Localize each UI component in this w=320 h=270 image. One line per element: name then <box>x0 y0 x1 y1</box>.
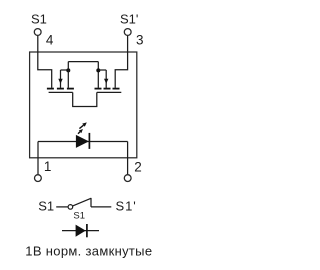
svg-text:S1': S1' <box>120 11 138 26</box>
svg-text:1: 1 <box>44 159 52 174</box>
switch S1 pivot circle <box>68 205 73 210</box>
junction dot Q2 source <box>96 68 100 72</box>
transistor Q2 gate line <box>97 91 122 93</box>
terminal S1 circle <box>34 29 41 36</box>
wire diode left lead <box>62 230 99 232</box>
wire switch left lead <box>56 206 68 208</box>
junction dot Q1 source <box>66 68 70 72</box>
wire Q1 body to source junction <box>61 69 69 71</box>
svg-text:1В норм. замкнутые: 1В норм. замкнутые <box>25 243 152 258</box>
transistor Q1 gate line <box>49 91 73 93</box>
transistor Q1 drain bar <box>47 88 54 90</box>
transistor Q1 source bar <box>67 88 74 90</box>
transistor Q2 body arrow <box>104 70 108 88</box>
switch S1 contact <box>90 198 92 207</box>
svg-text:S1: S1 <box>38 199 54 214</box>
terminal S1' circle <box>124 29 131 36</box>
svg-text:2: 2 <box>134 159 142 174</box>
wire source-source top rail <box>68 61 98 63</box>
transistor Q1 body bar <box>57 88 64 90</box>
wire Q2 source stub <box>97 62 99 88</box>
wire LED anode row <box>38 141 128 143</box>
svg-text:S1: S1 <box>73 211 85 222</box>
wire Q2 drain to pin3 <box>115 36 127 88</box>
svg-text:S1: S1 <box>31 11 47 26</box>
wire Q2 body to source junction <box>98 69 106 71</box>
led D1 emission arrow upper <box>79 122 86 128</box>
wire Q1 source stub <box>67 62 69 88</box>
svg-text:4: 4 <box>46 32 54 47</box>
transistor Q2 drain bar <box>113 88 120 90</box>
wire gate-gate link <box>73 92 97 106</box>
transistor Q1 body arrow <box>58 70 62 88</box>
package outline box <box>30 52 137 158</box>
svg-text:S1': S1' <box>116 199 137 214</box>
led D1 triangle <box>76 135 89 148</box>
wire pin4 to Q1 drain <box>38 36 52 88</box>
wire LED to pin2 <box>127 142 129 175</box>
transistor Q2 body bar <box>104 88 111 90</box>
wire switch right lead <box>91 206 111 208</box>
switch S1 blade <box>73 198 91 206</box>
transistor Q2 source bar <box>95 88 102 90</box>
diode D2 triangle <box>76 225 86 237</box>
terminal pin1 circle <box>35 175 42 182</box>
wire LED to pin1 <box>37 142 39 175</box>
diode D2 cathode bar <box>86 224 88 237</box>
svg-text:3: 3 <box>136 32 144 47</box>
terminal pin2 circle <box>124 175 131 182</box>
led D1 emission arrow lower <box>78 129 83 134</box>
led D1 cathode bar <box>88 133 90 149</box>
